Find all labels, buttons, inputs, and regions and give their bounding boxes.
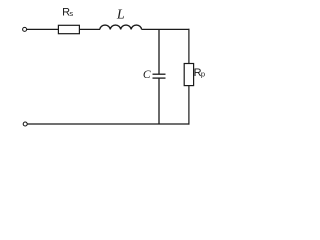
input terminal (top left) — [23, 27, 27, 31]
svg-text:p: p — [201, 70, 205, 79]
svg-text:L: L — [116, 8, 125, 23]
capacitor C plate (top) — [153, 73, 166, 75]
input terminal (bottom left) — [23, 122, 27, 126]
svg-text:s: s — [69, 9, 73, 18]
wire: top terminal to Rs — [27, 28, 59, 30]
wire: top-right corner down to Rp — [188, 29, 190, 64]
wire: top wire down to capacitor — [158, 29, 160, 74]
wire: capacitor to bottom wire — [158, 78, 160, 124]
svg-text:C: C — [143, 69, 151, 81]
wire: L to top-right corner — [142, 28, 190, 30]
inductor L (coil) — [100, 25, 142, 29]
wire: Rs to L — [79, 28, 100, 30]
resistor Rp (body) — [184, 64, 193, 86]
resistor Rs (body) — [58, 25, 79, 33]
wire: Rp down to bottom-right corner — [188, 86, 190, 125]
capacitor C plate (bottom) — [153, 77, 166, 79]
wire: bottom rail — [27, 123, 189, 125]
